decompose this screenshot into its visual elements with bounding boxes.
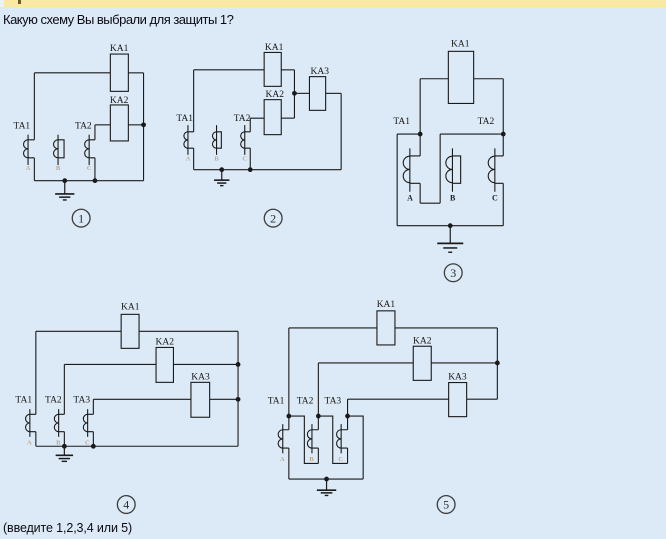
current transformer TA1 (scheme1) primary+winding [27, 135, 29, 165]
wire: scheme4 TA3 bottom drop [92, 432, 94, 447]
wire: scheme5 TA1 top riser [288, 328, 290, 430]
svg-text:TA2: TA2 [75, 121, 92, 131]
wire: TA3 (scheme5) secondary terminals [341, 430, 347, 448]
svg-text:KA3: KA3 [448, 373, 467, 383]
svg-text:C: C [492, 194, 498, 203]
current transformer phase-B (scheme1, unused) primary+winding [57, 135, 59, 165]
svg-text:C: C [338, 456, 343, 463]
current transformer TA2 (scheme2) primary+winding [244, 125, 246, 155]
svg-text:KA1: KA1 [451, 40, 470, 50]
wire: scheme1 left bus (TA1 secondary top riser) [33, 73, 35, 140]
wire: scheme5 right bus vertical [496, 328, 498, 399]
wire: scheme4 right bus vertical [237, 331, 239, 446]
ground symbol (scheme1) [64, 181, 66, 194]
svg-text:TA2: TA2 [45, 395, 62, 405]
svg-text:A: A [407, 194, 413, 203]
wire: scheme2 KA1 pin-right out [281, 69, 294, 71]
svg-text:3: 3 [450, 266, 456, 280]
svg-text:KA2: KA2 [266, 90, 285, 100]
junction: scheme4 KA3 output on right bus [236, 397, 241, 402]
wire: phase-B CT (scheme1) shorted secondary [58, 140, 64, 158]
relay KA2 (scheme5) coil [413, 346, 431, 380]
wire: TA2 (scheme3) secondary terminals [495, 156, 503, 183]
svg-text:5: 5 [443, 498, 449, 512]
svg-text:TA3: TA3 [73, 395, 90, 405]
wire: scheme1 TA2 secondary top riser [94, 125, 96, 140]
junction: scheme2 KA1+KA2 outputs to KA3 [292, 91, 297, 96]
junction: scheme4 KA2 output on right bus [236, 362, 241, 367]
svg-text:C: C [87, 165, 92, 172]
current transformer phase-B (scheme3, unused) primary+winding [451, 148, 453, 191]
junction: scheme1 ground tap on rail [62, 178, 67, 183]
svg-text:1: 1 [78, 211, 84, 225]
svg-text:KA2: KA2 [156, 337, 175, 347]
answer prompt text [3, 521, 132, 535]
junction: scheme5 ground tap on rail [324, 477, 329, 482]
wire: scheme5 bottom rail [289, 478, 363, 480]
wire: TA3 (scheme4) secondary terminals [88, 414, 94, 431]
node: scheme number 1 badge [72, 209, 90, 227]
current transformer TA2 (scheme5) primary+winding [311, 424, 313, 453]
junction: scheme5 KA2 output on right bus [495, 361, 500, 366]
svg-text:KA1: KA1 [377, 300, 396, 310]
wire: scheme2 KA2 output [281, 117, 294, 119]
svg-text:B: B [309, 456, 314, 463]
junction: scheme5 TA1 top node [286, 414, 291, 419]
svg-text:TA1: TA1 [393, 117, 410, 127]
wire: scheme1 top wire TA1-top to KA1 pin-left [34, 72, 110, 74]
wire: TA1 (scheme1) secondary terminals [28, 140, 34, 158]
wire: scheme3 KA1 pin-left in [420, 78, 448, 80]
junction: scheme3 ground tap on rail [448, 223, 453, 228]
wire: TA2 (scheme1) secondary terminals [89, 140, 95, 158]
svg-text:KA3: KA3 [311, 67, 330, 77]
wire: TA1 (scheme5) secondary terminals [283, 430, 289, 448]
junction: scheme1 KA2 output / right bus [141, 122, 146, 127]
junction: scheme3 right riser / cross link [501, 132, 506, 137]
node: scheme number 2 badge [264, 209, 282, 227]
wire: scheme4 left bus (TA1 top riser) [35, 331, 37, 414]
wire: scheme3 ground-leg tap left [397, 133, 420, 135]
svg-text:TA1: TA1 [176, 114, 193, 124]
junction: scheme5 TA3 top node [345, 414, 350, 419]
wire: scheme2 mid vertical KA1/KA2 outputs [293, 70, 295, 118]
relay KA3 (scheme5) coil [449, 383, 467, 417]
current transformer TA2 (scheme4) primary+winding [58, 409, 60, 437]
relay KA1 (scheme4) coil [121, 314, 139, 348]
svg-text:KA1: KA1 [121, 303, 140, 313]
wire: scheme4 KA2 output to right bus [173, 363, 238, 365]
svg-text:TA2: TA2 [297, 397, 314, 407]
wire: phase-B CT (scheme2) shorted secondary [217, 132, 222, 148]
junction: scheme3 left riser / ground leg [418, 132, 423, 137]
wire: scheme1 KA1 pin-right to right bus [128, 72, 143, 74]
current transformer TA3 (scheme5) primary+winding [340, 424, 342, 453]
wire: scheme4 TA2 to KA2 pin-left [64, 363, 156, 365]
wire: scheme2 bottom rail [194, 169, 341, 171]
wire: scheme1 TA1 secondary bottom drop [33, 158, 35, 181]
wire: scheme4 KA1 pin-right to right bus [139, 330, 238, 332]
wire: scheme5 top wire to KA1 pin-left [289, 327, 377, 329]
wire: TA1 (scheme4) secondary terminals [30, 414, 36, 431]
wire: scheme5 delta link TA1-top to TA2-bottom [289, 416, 319, 463]
wire: scheme3 KA1 pin-right out [474, 78, 504, 80]
current transformer TA1 (scheme5) primary+winding [282, 424, 284, 453]
svg-text:TA1: TA1 [15, 395, 32, 405]
svg-text:TA3: TA3 [325, 397, 342, 407]
svg-text:A: A [26, 165, 31, 172]
ground symbol (scheme3) [449, 226, 451, 244]
svg-text:A: A [27, 440, 32, 447]
wire: scheme5 TA3 top riser [347, 399, 349, 430]
wire: scheme1 bottom rail [34, 180, 143, 182]
current transformer TA1 (scheme4) primary+winding [29, 409, 31, 437]
svg-text:KA3: KA3 [191, 372, 210, 382]
wire: scheme4 KA3 output to right bus [210, 398, 238, 400]
svg-text:KA2: KA2 [110, 96, 129, 106]
wire: scheme2 TA2 top riser to KA2 input [250, 118, 264, 132]
ground symbol (scheme2) [221, 170, 223, 180]
current transformer TA1 (scheme3) primary+winding [409, 148, 411, 191]
svg-text:TA2: TA2 [478, 117, 495, 127]
wire: TA2 (scheme4) secondary terminals [59, 414, 65, 431]
svg-text:A: A [186, 155, 191, 162]
svg-text:KA1: KA1 [265, 43, 284, 53]
svg-text:TA2: TA2 [234, 114, 251, 124]
wire: scheme4 TA3 top riser [92, 399, 94, 414]
junction: scheme4 TA3 bottom on rail [91, 444, 96, 449]
wire: scheme2 top wire to KA1 pin-left [194, 69, 264, 71]
wire: scheme5 TA3 node to KA3 pin-left [348, 398, 449, 400]
wire: scheme3 left outer vertical [396, 134, 398, 226]
svg-text:B: B [56, 440, 61, 447]
current transformer phase-B (scheme2, unused) primary+winding [216, 125, 218, 155]
wire: scheme5 TA2 node to KA2 pin-left [318, 362, 413, 364]
wire: scheme5 delta link TA2-top to TA3-bottom [318, 416, 347, 463]
wire: scheme4 TA3 to KA3 pin-left [93, 398, 191, 400]
wire: scheme5 KA1 pin-right to right bus [395, 327, 497, 329]
wire: scheme3 left riser KA1 to TA1 top [419, 79, 421, 156]
node: scheme number 4 badge [117, 496, 135, 514]
wire: scheme2 KA3 pin-right out [326, 92, 342, 94]
svg-text:KA1: KA1 [110, 44, 129, 54]
relay KA1 (scheme1) coil [110, 54, 128, 91]
wire: scheme4 TA2 top riser [63, 364, 65, 414]
current transformer TA2 (scheme3) primary+winding [494, 148, 496, 191]
node: scheme number 3 badge [444, 264, 462, 282]
wire: scheme3 TA1 bottom loop bottom [420, 202, 440, 204]
wire: scheme5 TA3 bottom drop [347, 448, 349, 463]
wire: scheme1 KA2 input from TA2 [95, 124, 110, 126]
wire: TA1 (scheme2) secondary terminals [188, 132, 194, 148]
wire: scheme4 TA2 bottom drop [63, 432, 65, 447]
svg-text:A: A [280, 456, 285, 463]
node: scheme number 5 badge [437, 496, 455, 514]
relay KA2 (scheme4) coil [156, 347, 173, 382]
wire: scheme2 TA1 bottom drop [193, 148, 195, 170]
wire: scheme3 TA2 bottom drop [502, 183, 504, 225]
junction: scheme1 TA2 bottom on rail [93, 178, 98, 183]
wire: scheme2 TA2 bottom drop [249, 148, 251, 170]
wire: scheme4 top wire to KA1 pin-left [36, 330, 121, 332]
svg-text:TA1: TA1 [268, 397, 285, 407]
svg-text:C: C [85, 440, 90, 447]
wire: scheme5 delta link TA3-top to rail [348, 416, 364, 479]
wire: scheme1 right bus vertical [143, 73, 145, 181]
wire: scheme2 left bus (TA1 top riser) [193, 70, 195, 132]
svg-text:B: B [450, 194, 456, 203]
wire: scheme1 KA2 output to right bus [128, 124, 143, 126]
svg-text:2: 2 [270, 211, 276, 225]
relay KA1 (scheme3) coil [448, 51, 473, 103]
wire: TA1 (scheme3) secondary terminals [410, 156, 420, 183]
ground symbol (scheme4) [63, 446, 65, 455]
wire: scheme3 cross link riser [439, 134, 441, 203]
current transformer TA3 (scheme4) primary+winding [87, 409, 89, 437]
wire: phase-B CT (scheme3) shorted secondary [452, 156, 460, 183]
wire: scheme4 bottom rail [36, 445, 238, 447]
wire: scheme4 TA1 bottom drop [35, 432, 37, 447]
wire: scheme2 right bus vertical [340, 93, 342, 169]
svg-text:C: C [242, 155, 247, 162]
question text [3, 12, 233, 27]
wire: scheme3 TA1 bottom drop [419, 183, 421, 203]
junction: scheme2 TA2 bottom on rail [248, 167, 253, 172]
wire: scheme5 KA2 output to right bus [431, 362, 497, 364]
junction: scheme2 ground tap on rail [219, 167, 224, 172]
wire: scheme5 TA2 top riser [317, 363, 319, 430]
svg-text:B: B [56, 165, 61, 172]
top yellow strip (cut-off toolbar) [0, 0, 4, 7]
relay KA2 (scheme1) coil [110, 105, 128, 141]
relay KA3 (scheme4) coil [191, 382, 210, 417]
wire: scheme3 cross link TA1-bottom to TA2-top [440, 133, 503, 135]
current transformer TA2 (scheme1) primary+winding [88, 135, 90, 165]
wire: scheme5 TA1 bottom drop [288, 448, 290, 479]
relay KA3 (scheme2) coil [309, 77, 325, 111]
relay KA2 (scheme2) coil [264, 100, 281, 135]
ground symbol (scheme5) [326, 479, 328, 490]
wire: scheme2 junction to KA3 pin-left [294, 92, 309, 94]
wire: scheme3 bottom rail [397, 225, 503, 227]
junction: scheme5 TA2 top node [316, 414, 321, 419]
wire: scheme5 TA2 bottom drop [317, 448, 319, 463]
svg-text:TA1: TA1 [14, 121, 31, 131]
junction: scheme4 TA2 bottom + ground tap on rail [62, 444, 67, 449]
wire: scheme3 right riser KA1 to TA2 top [502, 79, 504, 156]
svg-text:4: 4 [123, 498, 129, 512]
relay KA1 (scheme2) coil [264, 52, 281, 86]
relay KA1 (scheme5) coil [377, 311, 395, 345]
wire: TA2 (scheme5) secondary terminals [312, 430, 318, 448]
wire: TA2 (scheme2) secondary terminals [245, 132, 251, 148]
wire: scheme1 TA2 secondary bottom drop [94, 158, 96, 181]
current transformer TA1 (scheme2) primary+winding [187, 125, 189, 155]
svg-text:KA2: KA2 [413, 336, 432, 346]
wire: scheme5 KA3 output to right bus [467, 398, 498, 400]
svg-text:B: B [214, 155, 219, 162]
